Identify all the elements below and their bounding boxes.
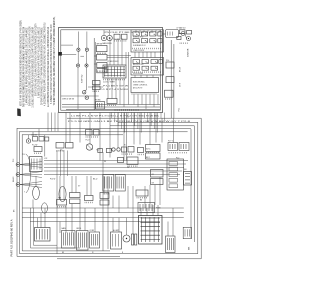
bus lines bottom of upper box xyxy=(62,104,160,106)
svg-text:GY-8: GY-8 xyxy=(180,83,182,87)
component row S xyxy=(168,143,189,151)
receptacle circle C1 xyxy=(101,35,106,40)
svg-text:888: 888 xyxy=(189,247,191,250)
relay bank D xyxy=(131,30,164,52)
svg-text:BK: BK xyxy=(62,252,64,254)
lower schematic bus frame right verticals xyxy=(200,118,202,259)
mid cluster O2 xyxy=(127,157,138,165)
drops through harness buses xyxy=(56,151,58,177)
lock motor N2 xyxy=(115,175,125,192)
wire box to module xyxy=(163,33,166,35)
svg-text:P2-1: P2-1 xyxy=(179,108,181,112)
gas valve V1 xyxy=(181,32,185,36)
surface switch SW1 xyxy=(77,48,80,51)
svg-text:K4 K5: K4 K5 xyxy=(146,149,150,151)
svg-text:GY: GY xyxy=(60,150,62,152)
svg-text:TO VERIFY PROPER OPERATION, SE: TO VERIFY PROPER OPERATION, SEE APPLICAB… xyxy=(52,17,56,106)
svg-text:BK W R: BK W R xyxy=(13,176,15,182)
svg-text:T-1 R P7-4 V N BU: T-1 R P7-4 V N BU xyxy=(100,89,130,91)
lower schematic bus frame bottom horizontals xyxy=(57,258,201,260)
svg-text:PART NO. 8101P641-60 REV A: PART NO. 8101P641-60 REV A xyxy=(9,219,13,256)
relay cluster I xyxy=(26,139,30,143)
svg-text:BU-12: BU-12 xyxy=(93,179,98,181)
relay block row 3 xyxy=(85,196,94,201)
bottom middle cluster xyxy=(96,102,105,110)
wire stub from left border xyxy=(62,54,76,56)
svg-text:OVEN LT DR SW: OVEN LT DR SW xyxy=(62,99,75,101)
blower motor winding xyxy=(35,228,51,242)
svg-text:P2 BK W DSI R: P2 BK W DSI R xyxy=(108,61,120,63)
svg-text:GY: GY xyxy=(78,186,80,188)
upper schematic border xyxy=(59,28,163,113)
svg-text:P2-4: P2-4 xyxy=(166,60,169,62)
mid cluster O3 xyxy=(136,190,148,196)
bank D top stubs xyxy=(135,30,137,32)
cluster right of clock xyxy=(107,99,117,104)
infinite switch block B xyxy=(97,63,107,68)
component T xyxy=(111,232,122,249)
motor K leads xyxy=(35,176,37,187)
svg-text:(EOC) P1 P2: (EOC) P1 P2 xyxy=(133,88,142,90)
light switch cluster xyxy=(93,81,101,85)
svg-text:P9 GRD: P9 GRD xyxy=(95,100,102,102)
connector P1 pin 2 xyxy=(16,173,20,177)
dense drop wires mid band xyxy=(111,113,113,119)
component O xyxy=(146,145,161,152)
wire right risers xyxy=(93,38,95,110)
valve rect 2 xyxy=(187,31,192,34)
harness bracket xyxy=(26,154,31,193)
component V xyxy=(166,236,176,253)
tap component 2 xyxy=(166,77,174,83)
internal wiring horizontals upper box xyxy=(61,44,73,46)
infinite switch block A xyxy=(97,46,108,52)
ink blotch on left border xyxy=(58,52,62,56)
fan motor K2 xyxy=(42,203,48,213)
oven light switch circles xyxy=(83,91,86,94)
extra drop wires below box xyxy=(47,113,49,132)
lower schematic bus frame left verticals xyxy=(16,128,18,256)
dark cluster Q xyxy=(138,203,155,213)
gas valve module H xyxy=(166,30,179,38)
surface switch SW4 xyxy=(85,64,88,67)
bake element xyxy=(62,231,76,249)
svg-text:P2-3: P2-3 xyxy=(176,158,179,160)
valve rect xyxy=(180,30,186,34)
relay block row 1 xyxy=(57,200,67,206)
bottom-right relay cluster xyxy=(183,227,191,238)
relay block row 4 xyxy=(100,193,109,199)
svg-text:P1-3: P1-3 xyxy=(13,159,15,162)
surface switch SW2 xyxy=(85,48,88,51)
svg-text:P6: P6 xyxy=(127,167,129,169)
terminal module R xyxy=(167,159,184,190)
component P xyxy=(151,170,164,178)
wire harness fan xyxy=(20,162,42,165)
motor L xyxy=(59,187,66,202)
drop wires upper-to-bus in lower section xyxy=(59,176,61,200)
svg-text:BROIL: BROIL xyxy=(77,228,82,230)
component row C rects xyxy=(114,34,120,39)
internal wiring verticals upper box xyxy=(109,38,111,65)
svg-text:P5 CLK P7 BK R K1 W N GY L: P5 CLK P7 BK R K1 W N GY L2 xyxy=(105,32,160,34)
oven control G xyxy=(131,78,159,93)
svg-text:BK W R: BK W R xyxy=(104,193,111,195)
tap component 1 xyxy=(166,62,174,68)
wire drops to bottom bus xyxy=(30,208,32,248)
main harness bus lines xyxy=(44,160,188,162)
svg-text:P1-5 W GRD GN L1 BK TB2 R: P1-5 W GRD GN L1 BK TB2 R BU P4-6 OR V N… xyxy=(68,121,190,123)
lower schematic bus frame horizontals xyxy=(67,117,201,119)
svg-text:BU: BU xyxy=(140,200,142,202)
svg-text:OVEN CONTROL: OVEN CONTROL xyxy=(133,85,147,87)
gas valve V2 xyxy=(187,37,191,41)
clock control F xyxy=(103,65,126,78)
connector P1 pin 1 xyxy=(16,163,20,167)
transformer J xyxy=(30,157,43,172)
svg-text:P1-2: P1-2 xyxy=(22,154,25,156)
svg-text:L1 BK P1-1 N W P1-9 DSI L2: L1 BK P1-1 N W P1-9 DSI L2 R P4-2 GY TB1… xyxy=(71,115,161,117)
convection motor xyxy=(123,235,130,242)
svg-text:ELECTRONIC: ELECTRONIC xyxy=(133,82,145,84)
drop wires to bottom components xyxy=(37,218,39,228)
tap component 3 xyxy=(165,90,174,97)
svg-text:P3 N DSI GRD: P3 N DSI GRD xyxy=(133,73,144,75)
svg-text:BK W R GY BU: BK W R GY BU xyxy=(133,64,143,66)
wire feed drops from top border xyxy=(77,32,79,49)
svg-text:DLB K3: DLB K3 xyxy=(32,135,38,137)
svg-text:L1 BK L2 R N W: L1 BK L2 R N W xyxy=(133,50,145,52)
capacitor pair xyxy=(132,234,134,245)
relay contact dots xyxy=(135,33,138,36)
sensor node xyxy=(86,144,92,150)
svg-text:P1-4 W: P1-4 W xyxy=(32,144,38,146)
broil element xyxy=(77,231,89,251)
valve tick row xyxy=(180,43,187,44)
pin ticks below upper box xyxy=(115,110,138,111)
strip N top circles xyxy=(112,148,115,151)
notes text block xyxy=(18,17,56,108)
relay bank E xyxy=(131,58,164,76)
wire drops to receptacles xyxy=(103,30,105,35)
surface switch SW3 xyxy=(76,64,79,67)
svg-text:P5-1 T: P5-1 T xyxy=(86,140,91,142)
dark registration mark xyxy=(17,108,21,116)
lock motor N1 xyxy=(103,175,114,192)
switch cluster M xyxy=(56,143,64,149)
svg-text:SURF SW: SURF SW xyxy=(82,74,84,83)
cluster right of N circles xyxy=(122,147,127,152)
svg-text:HI-LIMIT: HI-LIMIT xyxy=(113,230,119,232)
mid-bottom bus lines xyxy=(22,207,184,209)
clock pin ticks xyxy=(104,79,125,80)
small rect above N xyxy=(118,158,124,163)
svg-text:CLOCK / TIMER: CLOCK / TIMER xyxy=(103,81,116,83)
svg-text:T: T xyxy=(24,192,25,194)
connector P1 pin 3 xyxy=(16,183,20,187)
cluster below box left xyxy=(86,130,93,136)
valve rect 3 xyxy=(177,36,181,39)
upper drop wires from top box xyxy=(65,113,67,143)
motor K xyxy=(33,187,40,200)
wire switch drops xyxy=(77,51,79,64)
svg-text:IGNITOR: IGNITOR xyxy=(188,48,190,57)
cluster left of O xyxy=(138,148,144,153)
svg-text:BK-16: BK-16 xyxy=(180,67,182,72)
spark module U xyxy=(139,216,163,245)
dark cluster R2 xyxy=(184,172,192,186)
wire external risers xyxy=(170,40,172,118)
receptacle circle C2 xyxy=(107,35,112,40)
svg-text:P1-8 W: P1-8 W xyxy=(50,179,56,181)
svg-text:P8: P8 xyxy=(104,161,106,163)
relay block row 2 xyxy=(70,193,81,198)
element 3 xyxy=(90,232,100,248)
small cluster left of N xyxy=(98,149,103,153)
